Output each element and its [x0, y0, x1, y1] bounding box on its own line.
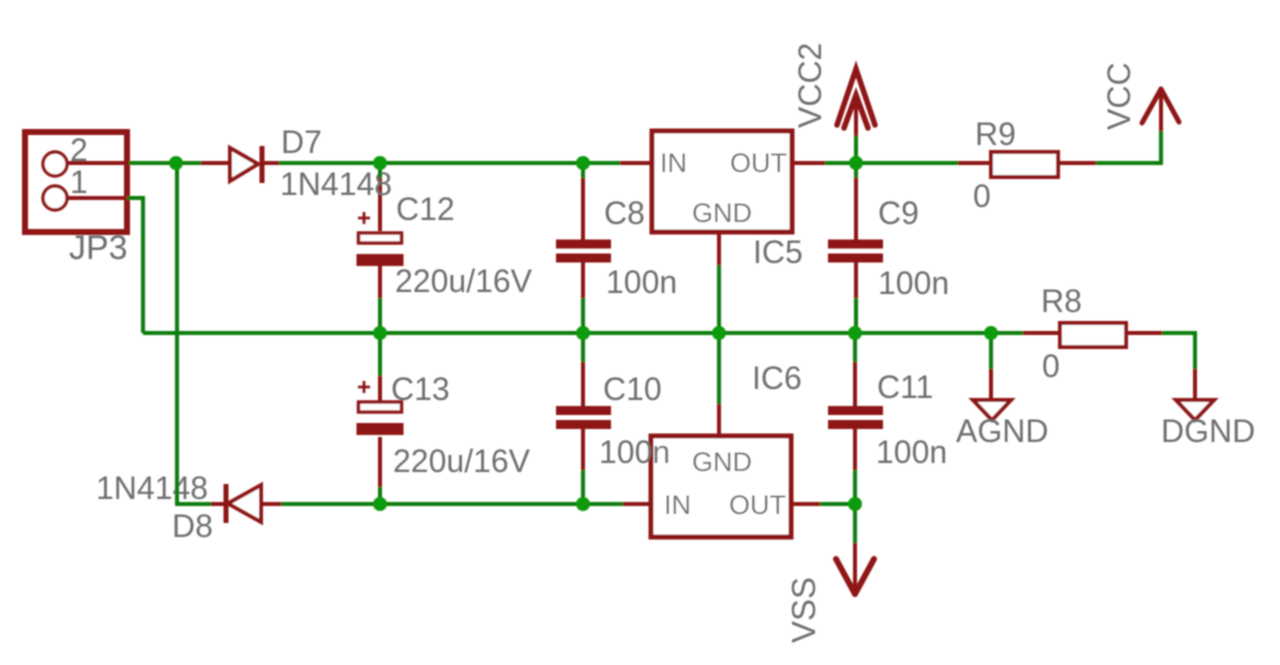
- svg-text:100n: 100n: [878, 265, 949, 301]
- svg-text:1N4148: 1N4148: [280, 166, 392, 202]
- svg-text:VCC: VCC: [1101, 62, 1137, 130]
- svg-text:220u/16V: 220u/16V: [395, 263, 533, 299]
- svg-text:2: 2: [70, 132, 88, 168]
- svg-text:DGND: DGND: [1161, 413, 1255, 449]
- svg-text:GND: GND: [692, 447, 752, 477]
- svg-text:R9: R9: [975, 116, 1016, 152]
- svg-text:C12: C12: [396, 191, 455, 227]
- svg-text:C10: C10: [603, 371, 662, 407]
- svg-text:C8: C8: [604, 195, 645, 231]
- svg-text:0: 0: [973, 178, 991, 214]
- svg-text:100n: 100n: [876, 434, 947, 470]
- svg-text:C13: C13: [391, 371, 450, 407]
- svg-text:C9: C9: [878, 195, 919, 231]
- svg-text:GND: GND: [692, 198, 752, 228]
- svg-text:0: 0: [1042, 348, 1060, 384]
- svg-text:1: 1: [70, 164, 88, 200]
- svg-text:IN: IN: [664, 490, 691, 520]
- svg-text:VSS: VSS: [785, 577, 822, 643]
- svg-text:IC6: IC6: [752, 360, 802, 396]
- svg-text:JP3: JP3: [69, 229, 128, 267]
- svg-text:D7: D7: [281, 124, 322, 160]
- svg-text:100n: 100n: [599, 434, 670, 470]
- svg-text:C11: C11: [877, 369, 933, 405]
- svg-text:VCC2: VCC2: [792, 43, 828, 128]
- svg-text:IC5: IC5: [753, 234, 803, 270]
- svg-text:IN: IN: [660, 148, 687, 178]
- svg-text:R8: R8: [1041, 283, 1082, 319]
- svg-text:OUT: OUT: [730, 148, 787, 178]
- svg-text:100n: 100n: [606, 264, 677, 300]
- svg-text:D8: D8: [172, 508, 213, 544]
- svg-text:220u/16V: 220u/16V: [393, 443, 531, 479]
- svg-text:AGND: AGND: [956, 413, 1048, 449]
- svg-text:OUT: OUT: [729, 490, 786, 520]
- svg-text:1N4148: 1N4148: [96, 470, 208, 506]
